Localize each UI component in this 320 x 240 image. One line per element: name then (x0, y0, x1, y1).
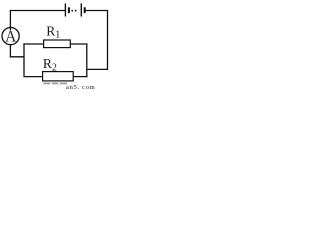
svg-text:A: A (5, 29, 17, 46)
resistor R1 box (44, 40, 71, 48)
wire R2 right to column (73, 76, 87, 78)
ammeter A1 circle (2, 27, 19, 44)
battery dots (71, 10, 73, 12)
watermark dashes under R2 (44, 82, 68, 84)
wire R2 left (24, 76, 43, 78)
background (0, 0, 114, 91)
wire stub entering ammeter top (9, 26, 11, 31)
battery B1 long plate right (80, 3, 82, 16)
wire right junction column (86, 43, 88, 77)
svg-text:an5. com: an5. com (66, 84, 95, 91)
battery B1 short thick plate right (84, 7, 86, 13)
wire ammeter bottom to left column (10, 45, 24, 57)
battery B1 long plate left (64, 3, 66, 16)
wire top-left corner to battery (10, 11, 65, 28)
wire battery to top-right corner, down right side, to junction column (86, 11, 108, 70)
wire R1 right to column (70, 43, 87, 45)
resistor R2 box (43, 72, 74, 81)
battery B1 short thick plate left (68, 7, 70, 13)
wire R1 left (23, 43, 43, 45)
wire left junction column (23, 43, 25, 77)
